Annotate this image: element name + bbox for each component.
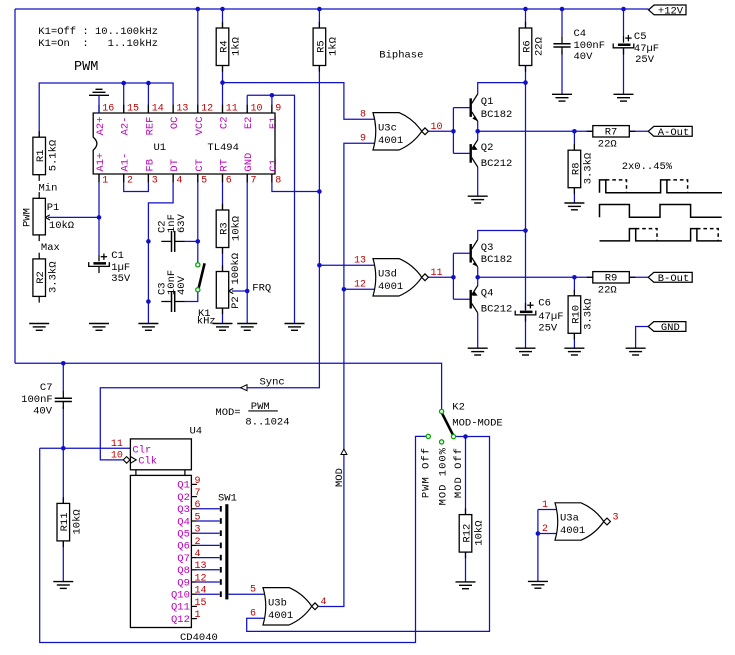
svg-text:PWM: PWM — [74, 60, 98, 75]
svg-text:R7: R7 — [605, 127, 618, 139]
wire C7 branch — [62, 363, 64, 391]
IC U4 CD4040 — [130, 425, 217, 644]
svg-text:TL494: TL494 — [207, 142, 239, 154]
resistor R7 22Ω — [587, 126, 636, 151]
U4 pin 9 Q1 — [177, 476, 200, 492]
U4 pin 12 Q9 — [177, 573, 219, 589]
svg-text:A2-: A2- — [120, 117, 132, 136]
svg-text:R10: R10 — [570, 305, 582, 324]
ground — [468, 348, 488, 355]
capacitor C2 1nF 63V — [161, 231, 185, 252]
ground — [53, 582, 73, 589]
resistor R1 5.1kΩ — [33, 131, 60, 181]
wire C4 branch — [561, 9, 563, 36]
svg-text:47µF: 47µF — [538, 311, 563, 323]
resistor R11 10kΩ — [57, 497, 84, 547]
svg-text:9: 9 — [360, 134, 366, 145]
U1 pin 12 VCC — [194, 104, 213, 136]
svg-text:DT: DT — [169, 159, 181, 172]
svg-text:25V: 25V — [538, 323, 558, 335]
wire P2 bottom to ground — [222, 308, 224, 323]
waveform B-Out (bottom, dashed 45%) — [600, 229, 722, 241]
svg-text:11: 11 — [111, 439, 123, 450]
NOR gate U3c — [360, 110, 443, 150]
resistor R4 1kΩ — [216, 22, 243, 72]
svg-text:8: 8 — [360, 110, 366, 121]
svg-text:12: 12 — [201, 104, 213, 115]
svg-text:11: 11 — [226, 104, 238, 115]
svg-text:40V: 40V — [574, 51, 594, 63]
transistor Q4 BC212 — [470, 286, 513, 316]
svg-text:Q8: Q8 — [177, 565, 190, 577]
svg-text:11: 11 — [431, 268, 443, 279]
wire C5 branch — [623, 9, 625, 36]
svg-text:R6: R6 — [521, 40, 533, 53]
MOD direction arrow — [341, 449, 347, 455]
switch SW1 DIP bank — [218, 492, 237, 599]
svg-text:8: 8 — [275, 175, 281, 186]
svg-text:R9: R9 — [605, 273, 618, 285]
svg-text:3.3kΩ: 3.3kΩ — [47, 261, 59, 293]
ground (inverted) — [89, 89, 109, 95]
wire pin15 stub — [123, 83, 125, 113]
svg-text:2: 2 — [127, 175, 133, 186]
svg-text:Q4: Q4 — [481, 288, 494, 300]
svg-text:CT: CT — [194, 159, 206, 172]
svg-text:CD4040: CD4040 — [180, 632, 218, 644]
svg-text:13: 13 — [354, 256, 366, 267]
svg-text:R1: R1 — [35, 149, 47, 162]
wire U3d output to Q3/Q4 bases — [428, 276, 453, 278]
svg-text:15: 15 — [127, 104, 139, 115]
formula MOD= PWM/8..1024 — [215, 401, 289, 428]
svg-text:Q5: Q5 — [177, 529, 190, 541]
capacitor C7 100nF 40V — [55, 391, 72, 409]
ground — [468, 196, 488, 203]
svg-text:63V: 63V — [176, 213, 188, 233]
svg-text:A1+: A1+ — [95, 153, 107, 172]
svg-text:5.1kΩ: 5.1kΩ — [47, 140, 59, 172]
U4 pin 3 Q5 — [177, 525, 219, 541]
svg-text:4001: 4001 — [378, 135, 403, 147]
svg-text:6: 6 — [250, 609, 256, 620]
svg-text:FRQ: FRQ — [252, 282, 271, 294]
NOR gate U3d — [354, 256, 443, 296]
U4 pin 15 Q11 — [171, 598, 207, 614]
svg-text:U3a: U3a — [560, 513, 579, 525]
ground — [89, 324, 109, 331]
wire pin1 to P1 wiper and C1 — [98, 174, 100, 255]
svg-text:9: 9 — [195, 476, 201, 487]
svg-text:10: 10 — [431, 122, 443, 133]
svg-text:2x0..45%: 2x0..45% — [622, 161, 673, 173]
wire R7 to A-Out — [629, 130, 648, 132]
IC U1 TL494 — [93, 113, 275, 174]
wire R4 branch to pin11 and U3c input 8 — [222, 9, 224, 28]
svg-text:BC182: BC182 — [481, 254, 513, 266]
net flag B-Out — [648, 272, 692, 284]
svg-text:Q4: Q4 — [177, 516, 190, 528]
wire pin6 RT to R3 — [222, 174, 224, 210]
wire left border (PWM node) — [14, 9, 16, 363]
U1 pin 5 CT — [194, 159, 207, 186]
svg-text:U3d: U3d — [378, 268, 397, 280]
svg-text:5: 5 — [250, 585, 256, 596]
svg-text:Max: Max — [41, 242, 60, 254]
resistor R5 1kΩ — [313, 22, 340, 72]
svg-text:6: 6 — [226, 175, 232, 186]
capacitor C4 100nF 40V — [553, 36, 570, 54]
svg-text:+12V: +12V — [658, 5, 684, 17]
svg-text:1: 1 — [195, 610, 201, 621]
svg-text:10kΩ: 10kΩ — [474, 520, 486, 545]
wire R9 to B-Out — [629, 276, 648, 278]
svg-text:Q2: Q2 — [177, 492, 190, 504]
svg-text:E1: E1 — [268, 117, 280, 130]
svg-text:Q3: Q3 — [177, 504, 190, 516]
wire R10 down — [573, 277, 575, 296]
svg-text:kHz: kHz — [197, 315, 216, 327]
wire U3b input 6 loop to K2 MOD-Off — [247, 437, 490, 632]
svg-text:RT: RT — [219, 159, 231, 172]
svg-text:K1=On : 1..10kHz: K1=On : 1..10kHz — [38, 38, 158, 50]
svg-text:MOD=: MOD= — [215, 407, 240, 419]
svg-text:25V: 25V — [635, 54, 655, 66]
svg-text:10kΩ: 10kΩ — [72, 509, 84, 534]
svg-text:3.3kΩ: 3.3kΩ — [583, 298, 595, 330]
svg-text:E2: E2 — [243, 117, 255, 130]
ground — [456, 582, 476, 589]
svg-text:A2+: A2+ — [95, 117, 107, 136]
svg-text:Q6: Q6 — [177, 541, 190, 553]
svg-text:FB: FB — [144, 159, 156, 172]
svg-text:4: 4 — [321, 597, 327, 608]
ground — [564, 203, 584, 210]
svg-text:22Ω: 22Ω — [534, 37, 546, 56]
svg-text:14: 14 — [152, 104, 164, 115]
potentiometer P2 100kΩ — [216, 253, 242, 314]
junction dots on PWM line — [121, 81, 126, 86]
svg-text:OC: OC — [169, 117, 181, 130]
ground — [516, 348, 536, 355]
svg-text:4: 4 — [176, 175, 182, 186]
wire PWM feedback line R1/pins 15,14,13 — [39, 83, 173, 137]
svg-text:4: 4 — [195, 549, 201, 560]
capacitor C3 10nF 40V — [161, 291, 185, 312]
ground — [213, 324, 233, 331]
U1 pin 13 OC — [169, 104, 188, 130]
svg-text:10: 10 — [111, 451, 123, 462]
svg-text:C2: C2 — [219, 117, 231, 130]
svg-text:C1: C1 — [268, 159, 280, 172]
transistor Q3 BC182 — [470, 240, 513, 267]
svg-text:12: 12 — [195, 573, 207, 584]
wire E2/E1 tie to ground rail — [246, 95, 248, 113]
switch K1 kHz — [196, 263, 216, 328]
wire GND flag to ground — [636, 327, 649, 349]
wire R3 to P2 — [222, 246, 224, 272]
svg-text:9: 9 — [275, 104, 281, 115]
svg-text:MOD 100%: MOD 100% — [438, 447, 450, 505]
svg-text:Biphase: Biphase — [379, 49, 423, 61]
svg-text:Q7: Q7 — [177, 553, 190, 565]
svg-text:13: 13 — [195, 561, 207, 572]
U4 pin 1 Q12 — [171, 610, 201, 626]
wire R8 down — [573, 131, 575, 150]
svg-text:40V: 40V — [176, 275, 188, 295]
svg-text:2: 2 — [542, 524, 548, 535]
transistor Q1 BC182 — [470, 94, 513, 121]
wire U3c output to Q1/Q2 bases — [428, 130, 453, 132]
wire bottom bus to K2 — [15, 363, 442, 409]
wire pin4 DT to C2/C3 rail — [148, 174, 173, 324]
svg-text:PWM Off: PWM Off — [421, 447, 433, 498]
svg-text:4001: 4001 — [378, 281, 403, 293]
svg-text:7: 7 — [195, 488, 201, 499]
resistor R9 22Ω — [587, 272, 636, 297]
resistor R8 3.3kΩ — [568, 144, 595, 194]
svg-text:7: 7 — [251, 175, 257, 186]
svg-text:1kΩ: 1kΩ — [328, 37, 340, 56]
wire R6 rail down to C6 — [525, 9, 527, 28]
svg-text:47µF: 47µF — [634, 43, 659, 55]
svg-text:U4: U4 — [190, 425, 203, 437]
net flag A-Out — [648, 126, 692, 138]
svg-text:R11: R11 — [59, 512, 71, 531]
svg-text:10kΩ: 10kΩ — [49, 220, 74, 232]
ground — [564, 348, 584, 355]
svg-text:R5: R5 — [315, 40, 327, 53]
svg-text:B-Out: B-Out — [658, 273, 690, 285]
U1 pin 4 DT — [169, 159, 182, 186]
U1 pin 6 RT — [219, 159, 232, 186]
svg-text:K2: K2 — [452, 402, 465, 414]
U4 pin 5 Q4 — [177, 512, 219, 528]
svg-text:40V: 40V — [33, 406, 53, 418]
svg-text:C5: C5 — [634, 31, 647, 43]
svg-text:35V: 35V — [111, 273, 131, 285]
U1 pin 1 A1+ — [95, 153, 108, 187]
resistor R12 10kΩ — [459, 508, 486, 558]
net flag +12V — [649, 5, 687, 17]
potentiometer P1 10kΩ — [33, 192, 74, 241]
U4 pin 7 Q2 — [177, 488, 200, 504]
svg-text:C6: C6 — [538, 298, 551, 310]
svg-text:5: 5 — [195, 512, 201, 523]
svg-text:Q9: Q9 — [177, 577, 190, 589]
wire MOD net: U3b out up to U3c-9 / U3d-12 — [319, 289, 344, 606]
svg-text:A1-: A1- — [120, 153, 132, 172]
svg-text:SW1: SW1 — [218, 492, 237, 504]
ground — [552, 94, 572, 101]
waveform square (middle) — [600, 205, 722, 218]
svg-text:R2: R2 — [35, 271, 47, 284]
svg-text:REF: REF — [144, 117, 156, 136]
svg-text:U1: U1 — [154, 142, 167, 154]
svg-text:4001: 4001 — [560, 525, 585, 537]
capacitor C5 47uF 25V — [613, 35, 634, 55]
svg-text:22Ω: 22Ω — [598, 285, 617, 297]
svg-text:Q2: Q2 — [481, 142, 494, 154]
U4 pin 13 Q8 — [177, 561, 219, 577]
switch K2 MOD-MODE — [426, 402, 503, 445]
U1 pin 16 A2+ — [95, 104, 114, 136]
ground — [285, 324, 305, 331]
svg-text:3.3kΩ: 3.3kΩ — [583, 153, 595, 185]
svg-text:U3b: U3b — [268, 597, 287, 609]
svg-text:12: 12 — [354, 280, 366, 291]
U1 pin 11 C2 — [219, 104, 238, 130]
svg-text:R3: R3 — [218, 222, 230, 235]
svg-text:5: 5 — [201, 175, 207, 186]
U4 pin 14 Q10 — [171, 586, 220, 602]
svg-text:100nF: 100nF — [574, 40, 606, 52]
U1 pin 14 REF — [144, 104, 163, 136]
svg-text:MOD: MOD — [334, 468, 346, 487]
U4 pin 6 Q3 — [177, 500, 219, 516]
Sync direction arrow — [241, 385, 247, 391]
svg-text:2: 2 — [195, 537, 201, 548]
wire A-node emitters to R7 — [477, 121, 479, 140]
svg-text:10: 10 — [251, 104, 263, 115]
U1 pin 15 A2- — [120, 104, 139, 136]
svg-text:15: 15 — [195, 598, 207, 609]
svg-text:Clr: Clr — [132, 444, 151, 456]
ground — [138, 324, 158, 331]
svg-text:6: 6 — [195, 500, 201, 511]
svg-text:BC212: BC212 — [481, 158, 513, 170]
wire K2 right contact / R12 — [463, 434, 468, 439]
ground — [29, 324, 49, 331]
svg-text:14: 14 — [195, 586, 207, 597]
U1 pin 8 C1 — [268, 159, 281, 186]
svg-text:10kΩ: 10kΩ — [231, 216, 243, 241]
svg-text:VCC: VCC — [194, 117, 206, 136]
svg-text:Q10: Q10 — [171, 590, 190, 602]
svg-text:100nF: 100nF — [21, 394, 53, 406]
ground — [237, 324, 257, 331]
svg-text:Q1: Q1 — [177, 480, 190, 492]
svg-text:P1: P1 — [47, 202, 60, 214]
wire Clr line / bottom-left loop to K2 — [40, 447, 131, 449]
capacitor C1 1uF 35V — [89, 254, 110, 274]
wire R5 line / pin8 / Sync — [318, 9, 320, 28]
resistor R10 3.3kΩ — [568, 290, 595, 340]
svg-text:GND: GND — [243, 153, 255, 172]
svg-text:Clk: Clk — [138, 456, 157, 468]
svg-text:GND: GND — [661, 322, 680, 334]
U1 pin 10 E2 — [243, 104, 262, 130]
svg-text:100kΩ: 100kΩ — [230, 253, 242, 285]
resistor R2 3.3kΩ — [33, 253, 60, 303]
wire pin7 GND down — [246, 174, 248, 324]
wire B-node emitters to R9 — [477, 267, 479, 286]
svg-text:8..1024: 8..1024 — [245, 417, 289, 429]
svg-text:4001: 4001 — [268, 610, 293, 622]
wire C6 to ground — [525, 316, 527, 349]
resistor R3 10kΩ — [216, 204, 243, 254]
svg-text:Sync: Sync — [260, 377, 285, 389]
svg-text:K1=Off : 10..100kHz: K1=Off : 10..100kHz — [38, 26, 158, 38]
svg-text:3: 3 — [195, 525, 201, 536]
wire VCC pin12 — [197, 9, 199, 113]
NOR gate U3b — [250, 585, 327, 625]
svg-text:Min: Min — [39, 183, 58, 195]
svg-text:BC182: BC182 — [481, 109, 513, 121]
svg-text:3: 3 — [152, 175, 158, 186]
wire Q1 collector to rail — [478, 83, 526, 94]
NOR gate U3a — [542, 500, 619, 540]
U4 pin 10 Clk — [111, 451, 157, 468]
svg-text:Q1: Q1 — [481, 96, 494, 108]
wire pin2-pin3 FB loop — [124, 174, 149, 192]
svg-text:MOD Off: MOD Off — [453, 447, 465, 498]
svg-text:1: 1 — [102, 175, 108, 186]
wire Q3 collector to rail — [478, 231, 526, 240]
transistor Q2 BC212 — [470, 140, 513, 170]
ground — [626, 348, 646, 355]
svg-text:R4: R4 — [218, 40, 230, 53]
ground — [528, 581, 548, 588]
svg-text:C1: C1 — [111, 250, 124, 262]
svg-text:MOD-MODE: MOD-MODE — [452, 417, 502, 429]
wire K1 bottom contact to C3 — [185, 292, 198, 302]
svg-text:C4: C4 — [574, 28, 587, 40]
svg-text:A-Out: A-Out — [658, 127, 690, 139]
wire Q2 collector to ground — [477, 167, 479, 196]
svg-text:1kΩ: 1kΩ — [231, 37, 243, 56]
U4 pin 2 Q6 — [177, 537, 219, 553]
svg-text:1µF: 1µF — [111, 262, 130, 274]
svg-text:1: 1 — [542, 500, 548, 511]
svg-text:16: 16 — [102, 104, 114, 115]
U4 pin 4 Q7 — [177, 549, 219, 565]
svg-text:BC212: BC212 — [481, 304, 513, 316]
wire C2 right to pin5 CT — [197, 174, 199, 263]
U1 pin 9 E1 — [268, 104, 281, 130]
svg-text:C7: C7 — [40, 382, 53, 394]
U1 pin 7 GND — [243, 153, 256, 187]
svg-text:R12: R12 — [461, 524, 473, 543]
wire P2 wiper to FRQ node — [232, 290, 247, 292]
wire pin8 C1 to R5 line — [272, 174, 320, 192]
resistor R6 22Ω — [519, 22, 546, 72]
wire Q4 collector to ground — [477, 313, 479, 348]
wire U3d input 13 — [319, 264, 375, 266]
svg-text:13: 13 — [176, 104, 188, 115]
svg-text:P2: P2 — [230, 296, 242, 309]
svg-text:R8: R8 — [570, 162, 582, 175]
svg-text:PWM: PWM — [22, 208, 34, 227]
wire +12V top rail — [15, 8, 649, 10]
U1 pin 3 FB — [144, 159, 157, 186]
svg-text:22Ω: 22Ω — [598, 139, 617, 151]
capacitor C6 47uF 25V — [515, 302, 536, 322]
U4 pin 11 Clr — [111, 439, 151, 457]
ground — [614, 94, 634, 101]
svg-text:U3c: U3c — [378, 122, 397, 134]
svg-text:Q12: Q12 — [171, 614, 190, 626]
wire SW1 common to U3b input 5 — [228, 593, 265, 595]
svg-text:Q3: Q3 — [481, 242, 494, 254]
wire U3a inputs tied to ground — [538, 509, 558, 511]
net flag GND — [648, 322, 686, 334]
svg-text:Q11: Q11 — [171, 602, 190, 614]
wire pin14 stub — [147, 83, 149, 113]
U1 pin 2 A1- — [120, 153, 133, 187]
wire R11 down — [62, 448, 64, 503]
waveform A-Out (top, dashed 45%) — [600, 180, 723, 193]
